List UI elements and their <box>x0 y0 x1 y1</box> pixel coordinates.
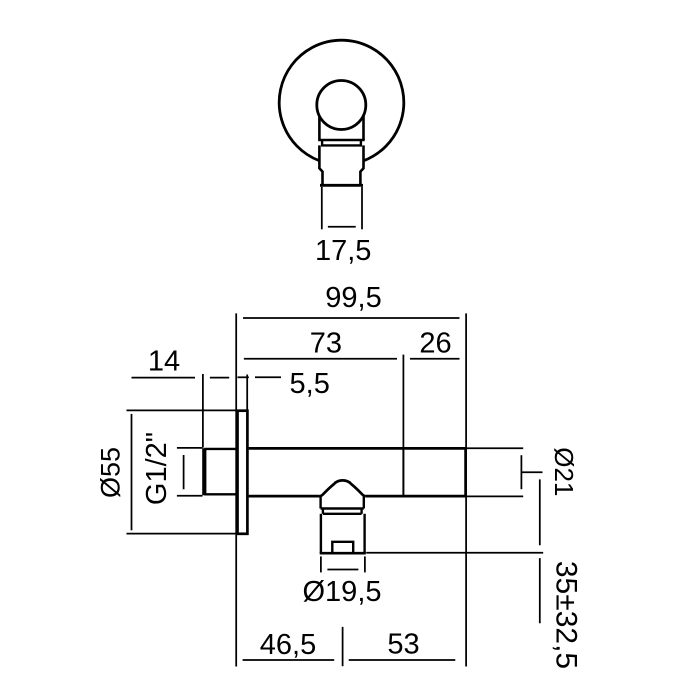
dim Ø21 <box>467 448 543 496</box>
dim 46,5 and 53 <box>243 627 456 666</box>
cup slot <box>332 542 353 553</box>
holder groove <box>323 509 362 514</box>
svg-text:5,5: 5,5 <box>290 368 330 400</box>
dim Ø55 <box>127 410 238 533</box>
dim 73 <box>244 358 397 360</box>
svg-text:Ø21: Ø21 <box>549 447 579 496</box>
dim 14 <box>132 374 230 448</box>
dim line 17,5 <box>328 226 356 228</box>
svg-text:35±32,5: 35±32,5 <box>550 561 583 669</box>
extension lines 17,5 <box>322 187 362 230</box>
svg-text:46,5: 46,5 <box>260 629 316 661</box>
svg-text:Ø19,5: Ø19,5 <box>303 576 382 608</box>
holder collar <box>321 496 364 508</box>
dim 99,5 <box>243 317 460 319</box>
svg-text:G1/2": G1/2" <box>141 432 173 505</box>
dim 5,5 <box>238 375 282 410</box>
svg-text:99,5: 99,5 <box>325 282 381 314</box>
svg-text:Ø55: Ø55 <box>96 447 126 498</box>
svg-text:17,5: 17,5 <box>315 235 371 267</box>
dim Ø19,5 <box>321 556 365 572</box>
outlet circle Ø21 <box>317 81 366 130</box>
svg-text:73: 73 <box>310 328 342 360</box>
extension line joint 73/26 <box>402 355 404 448</box>
svg-text:26: 26 <box>419 328 451 360</box>
extension line wall face (left) <box>235 313 237 666</box>
flange circle Ø55 <box>279 40 404 161</box>
holder cup (front view) <box>319 145 363 185</box>
svg-text:53: 53 <box>387 629 419 661</box>
dim 26 <box>410 358 460 360</box>
holder cup <box>321 514 365 553</box>
extension line tube end (right) <box>465 313 467 666</box>
svg-text:14: 14 <box>148 346 180 378</box>
nipple G1/2 body <box>204 449 237 494</box>
tube joint line <box>402 447 404 497</box>
tube body <box>249 447 466 497</box>
holder dome <box>320 480 365 496</box>
holder groove ring (front view) <box>321 140 362 145</box>
dim 35±32,5 <box>366 479 543 623</box>
nipple thread end bar <box>202 448 206 495</box>
wall flange plate <box>238 411 248 534</box>
holder neck (front view) <box>318 115 365 140</box>
dim G1/2" <box>177 448 203 496</box>
